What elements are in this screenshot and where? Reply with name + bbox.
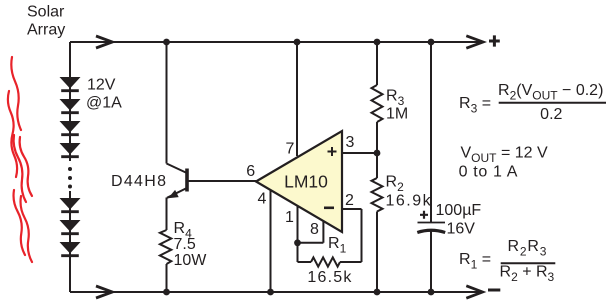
svg-text:2: 2 bbox=[345, 192, 354, 209]
svg-text:1M: 1M bbox=[386, 106, 408, 123]
svg-text:6: 6 bbox=[246, 163, 255, 180]
svg-text:Solar: Solar bbox=[27, 4, 65, 21]
svg-text:7: 7 bbox=[286, 141, 295, 158]
svg-text:8: 8 bbox=[310, 221, 319, 238]
svg-text:16.5k: 16.5k bbox=[307, 269, 352, 286]
svg-text:Array: Array bbox=[27, 22, 65, 39]
svg-text:3: 3 bbox=[346, 134, 355, 151]
svg-text:1: 1 bbox=[285, 209, 294, 226]
svg-text:LM10: LM10 bbox=[284, 171, 328, 191]
svg-text:0.2: 0.2 bbox=[540, 106, 562, 123]
svg-text:16V: 16V bbox=[447, 221, 476, 238]
svg-text:0 to 1 A: 0 to 1 A bbox=[459, 164, 518, 181]
svg-text:16.9k: 16.9k bbox=[386, 193, 433, 210]
svg-text:4: 4 bbox=[258, 191, 267, 208]
svg-text:D44H8: D44H8 bbox=[111, 173, 167, 190]
svg-text:7.5: 7.5 bbox=[174, 236, 196, 253]
svg-text:100µF: 100µF bbox=[436, 202, 482, 219]
svg-text:10W: 10W bbox=[174, 252, 208, 269]
svg-text:@1A: @1A bbox=[86, 95, 122, 112]
svg-text:12V: 12V bbox=[87, 77, 116, 94]
